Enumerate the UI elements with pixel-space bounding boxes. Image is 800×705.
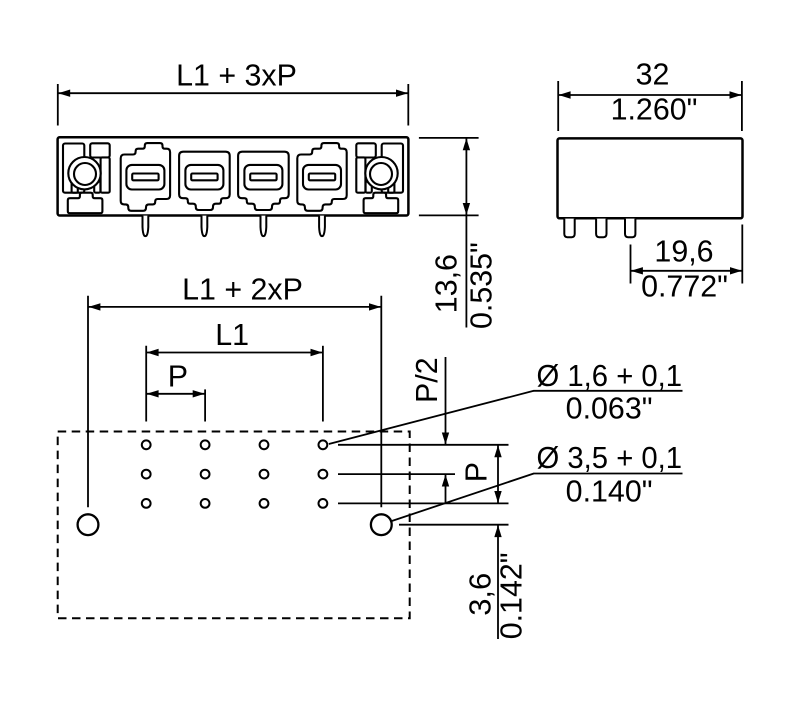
svg-text:0.063": 0.063" [566,392,653,426]
dimension L1 line with arrows [147,352,323,354]
small pin holes grid 4x3 [142,440,327,507]
dimension P/2 line upper with arrow [445,357,447,444]
solder pin row 1 (side view) [564,219,574,238]
contact cell 2 inner chamber and slot [185,165,223,190]
dimension L1 extension line left [145,346,147,422]
solder pin 4 (front view) [319,216,325,237]
dimension 13.6 extension line bottom [419,214,479,216]
svg-text:3,6: 3,6 [464,573,498,616]
svg-text:L1: L1 [215,318,249,352]
dimension 13.6 fraction bar extension [465,215,467,327]
svg-text:P: P [459,462,493,482]
svg-text:0.535": 0.535" [465,242,499,329]
solder pin 3 (front view) [261,216,267,237]
svg-text:19,6: 19,6 [654,234,713,268]
hole row 3 extension line [338,502,509,504]
mounting hole centerline extension [399,524,509,526]
dimension P/2 line lower with arrow [445,475,447,504]
solder pin 1 (front view) [143,216,149,237]
contact cell 2 outline [179,152,230,210]
dimension 32 extension line left [557,81,559,131]
svg-text:Ø 3,5 + 0,1: Ø 3,5 + 0,1 [537,441,683,475]
svg-text:Ø 1,6 + 0,1: Ø 1,6 + 0,1 [537,359,683,393]
front view body outline [58,137,409,215]
contact cell 4 outline [297,143,346,211]
dimension L1+2xP line with arrows [88,306,381,308]
svg-text:32: 32 [636,58,670,92]
svg-text:1.260": 1.260" [611,92,698,126]
dimension 32 extension line right [741,81,743,131]
svg-text:P: P [168,359,188,393]
dimension 19.6 extension line right [741,225,743,284]
contact cell 4 inner chamber and slot [303,165,341,190]
svg-text:L1 + 3xP: L1 + 3xP [176,59,297,93]
svg-text:P/2: P/2 [410,357,444,403]
drilling plan PCB outline (dashed) [58,432,410,619]
dimension 13.6 line with arrows [465,138,467,215]
leader line small hole diameter [329,391,534,444]
solder pin row 3 (side view) [625,219,635,238]
dimension 13.6 extension line top [419,137,479,139]
svg-text:13,6: 13,6 [430,254,464,313]
contact cell 3 inner chamber and slot [244,165,282,190]
dimension 3.6 line with arrow and fraction bar [497,525,499,639]
dimension L1+3xP extension line left [57,84,59,126]
contact cell 3 outline [238,152,289,210]
dimension L1+3xP extension line right [407,84,409,126]
dimension 19.6 line with arrows [631,270,742,272]
mounting hole right [371,514,392,535]
mounting hole left [78,514,99,535]
solder pin row 2 (side view) [596,219,606,238]
svg-text:0.142": 0.142" [494,552,528,639]
dimension P line with arrows [147,393,205,395]
solder pin 2 (front view) [202,216,208,237]
hole row 2 extension line [338,473,455,475]
dimension L1+2xP extension line left [87,296,89,508]
mounting flange right (screw collar) [356,143,403,213]
callout underline mounting hole [534,473,683,475]
hole row 1 extension line [338,444,509,446]
dimension 19.6 extension line left [630,245,632,284]
dimension L1+2xP extension line right [380,296,382,508]
dimension L1+3xP line with arrows [58,92,408,94]
dimension L1 extension line right [322,346,324,422]
svg-text:0.772": 0.772" [641,270,728,304]
leader line mounting hole diameter [392,474,534,522]
svg-text:0.140": 0.140" [566,474,653,508]
callout underline small hole [534,390,683,392]
mounting flange left (screw collar) [63,143,110,213]
contact cell 1 inner chamber and slot [126,165,164,190]
side view body outline [558,138,743,218]
svg-text:L1 + 2xP: L1 + 2xP [182,272,303,306]
dimension P extension line right [204,389,206,421]
contact cell 1 outline [121,143,170,211]
dimension 32 line with arrows [559,94,742,96]
dimension P vertical line with arrows [497,445,499,503]
